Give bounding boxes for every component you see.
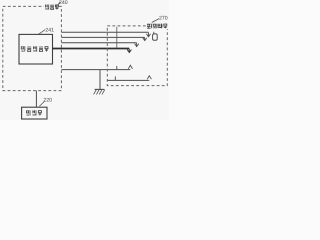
svg-text:241: 241	[45, 27, 54, 33]
arrow end of wire 2 (down arrowhead)	[143, 37, 147, 40]
signal converter block 241 (solid box)	[19, 34, 53, 64]
svg-text:220: 220	[43, 98, 52, 104]
ground drop wire	[99, 70, 101, 90]
label 신호변환부 (signal converter text)	[21, 46, 48, 51]
arrow end of wire 1 (down arrowhead)	[146, 32, 150, 37]
leader line for 270	[152, 19, 159, 23]
wire 4 (thick line from block 241)	[53, 48, 130, 50]
wire 3	[61, 42, 136, 44]
label 표(색광)부 (text on top edge of 270)	[147, 23, 169, 29]
control unit block 240 (dashed box)	[3, 6, 62, 90]
wire 2	[61, 36, 144, 38]
component (small element near wire 1 end)	[153, 32, 158, 41]
stub tick on wire 6	[114, 76, 116, 80]
reference numeral 241	[45, 27, 54, 33]
leader line for 220	[39, 101, 44, 106]
ground symbol	[94, 89, 105, 94]
label 제어부 (control unit text on top edge)	[44, 4, 59, 11]
svg-text:270: 270	[159, 15, 168, 21]
svg-text:240: 240	[59, 0, 68, 6]
internal vertical bus line in box 270	[116, 27, 118, 49]
up arrowhead at end of wire 5	[128, 65, 132, 69]
wire 6 (bottom line inside 270)	[107, 79, 149, 81]
stub tick on wire 5	[116, 66, 118, 70]
label 저장부 (storage text)	[27, 110, 42, 115]
wire 5 (line to ground)	[61, 69, 130, 71]
reference numeral 220	[43, 98, 52, 104]
arrow end of wire 4 (down arrowhead)	[127, 49, 131, 53]
leader line for 241	[38, 30, 45, 35]
leader line for 240	[56, 2, 61, 7]
reference numeral 270	[159, 15, 168, 21]
arrow end of wire 3 (down arrowhead)	[135, 43, 139, 47]
light emitting block 270 (dashed box)	[107, 26, 167, 86]
wire 1 (top signal line)	[61, 31, 148, 33]
reference numeral 240	[59, 0, 68, 6]
up arrowhead at end of wire 6	[147, 76, 151, 80]
storage block 220 (solid box)	[22, 107, 47, 119]
wire connecting 240 to 220	[35, 91, 37, 108]
